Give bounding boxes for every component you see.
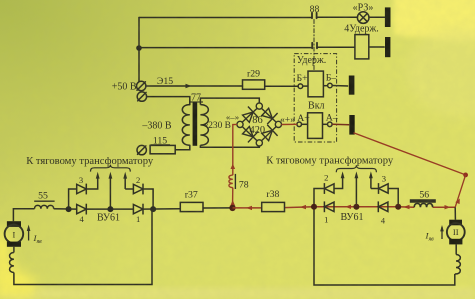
motor I field winding xyxy=(13,247,15,253)
underline label 56 xyxy=(410,199,436,203)
RIGHT DIODE GROUP xyxy=(314,175,455,286)
red diagonal A- to corner xyxy=(354,133,466,175)
coil vkl xyxy=(308,113,323,139)
wire r37 to junction xyxy=(203,207,233,209)
diode bridge top-left xyxy=(241,106,259,124)
red wire minus down from bridge xyxy=(233,124,237,175)
wire top to contact 88 xyxy=(139,17,312,19)
right loop down xyxy=(314,207,455,285)
terminal bar top (lamp) xyxy=(385,7,391,27)
pin A- xyxy=(328,122,333,127)
bright patch top right xyxy=(393,0,475,41)
arrow to transformer outer right xyxy=(369,171,373,178)
arrow up on minus wire xyxy=(231,164,236,170)
LOWER LEFT MOTOR CIRCUIT xyxy=(13,175,232,221)
motor II field winding xyxy=(455,255,461,275)
bottom light band xyxy=(0,288,475,299)
node minus xyxy=(237,121,243,127)
pin B- xyxy=(328,83,333,88)
diode bridge bottom-left xyxy=(241,125,259,143)
arm L-B with diode xyxy=(242,126,257,140)
resistor r38 xyxy=(262,202,285,211)
relay uderzh dashed box xyxy=(294,54,336,142)
arrow up near junction xyxy=(230,200,235,206)
red wire junction to r38 xyxy=(233,207,456,208)
diode 4 xyxy=(77,204,87,215)
node bottom xyxy=(256,140,262,146)
wire contact to lamp xyxy=(317,16,358,18)
upper branch left xyxy=(69,189,77,209)
core xyxy=(193,102,198,145)
relay box 4uderzh xyxy=(355,35,369,59)
node right group mid xyxy=(353,204,359,210)
lamp RZ xyxy=(357,12,369,24)
junction dot main (red) xyxy=(229,205,235,211)
arrow on diagonal xyxy=(455,199,460,205)
diode 2 xyxy=(133,184,143,195)
node plus xyxy=(275,121,281,127)
wire left supply rail xyxy=(138,18,140,82)
arm T-R with diode xyxy=(261,108,276,122)
inductor 56 xyxy=(414,203,432,207)
node top xyxy=(256,103,262,109)
terminal bar A- xyxy=(349,115,354,135)
diode bridge top-right xyxy=(260,106,278,124)
motor I xyxy=(7,221,21,227)
wire lamp to terminal xyxy=(369,16,385,18)
terminal bar B- xyxy=(349,76,355,95)
arrow current Iяв motor I xyxy=(28,228,30,241)
arrow current at motor II junction xyxy=(445,205,451,209)
red corner node xyxy=(463,173,468,178)
node left group outer xyxy=(66,206,72,212)
wire second row xyxy=(139,47,312,49)
arrow current into right group node xyxy=(300,205,306,209)
node right group inner xyxy=(311,204,317,210)
arrows up to traction transformer left xyxy=(96,172,100,179)
arrow to transformer right (left group) xyxy=(123,172,127,179)
resistor 115 xyxy=(150,145,175,153)
red plus wire bridge to A+ xyxy=(229,124,297,208)
node junction on left rail xyxy=(136,45,142,51)
underline label 115 xyxy=(151,144,171,146)
arrow current right group outer xyxy=(404,205,410,209)
current arrow Iav II xyxy=(440,225,444,231)
arrow to transformer mid right xyxy=(355,171,359,178)
arm B-R with diode xyxy=(261,126,276,140)
diode 4 right group xyxy=(378,201,388,212)
terminal 115 xyxy=(137,145,146,154)
bright patch bottom left xyxy=(0,228,36,297)
secondary winding xyxy=(200,105,208,146)
upper branch right xyxy=(124,175,126,189)
arrow current right group inner xyxy=(345,205,351,209)
diode bridge bottom-right xyxy=(260,125,278,143)
underline label 77 xyxy=(189,101,203,103)
transformer T77 xyxy=(182,98,259,147)
node right group outer xyxy=(395,204,401,210)
wire motor I to bus xyxy=(13,209,34,221)
wire A- to bar xyxy=(332,123,349,126)
wire secondary bottom to bridge xyxy=(200,145,259,147)
brace left xyxy=(91,165,131,172)
upper branch xyxy=(314,189,324,207)
terminal bar 4uderzh xyxy=(385,37,390,57)
mechanical dash-dot link xyxy=(313,20,315,71)
coil uderzh xyxy=(308,71,323,97)
arrow current into junction xyxy=(246,206,252,210)
resistor r29 xyxy=(243,80,265,89)
wire E15 xyxy=(146,85,243,87)
wire primary bottom xyxy=(175,145,190,150)
wire B- to bar xyxy=(332,85,348,88)
contact of 4uderzh xyxy=(312,43,317,49)
resistor r37 xyxy=(180,202,203,211)
reactor 78 coil xyxy=(229,175,233,188)
arrow to transformer mid left xyxy=(109,172,113,179)
terminal primary top xyxy=(137,92,146,101)
contact 88 xyxy=(312,13,317,18)
diode 3 right group xyxy=(379,183,389,194)
underline label 55 xyxy=(34,200,54,202)
node left group mid xyxy=(107,206,113,212)
inductor 55 xyxy=(35,205,54,208)
red diagonal corner to motor junction xyxy=(455,175,465,207)
rectifier bridge 86/420 xyxy=(237,103,282,146)
primary winding xyxy=(182,105,190,146)
pin B+ xyxy=(298,84,303,89)
motor II xyxy=(454,207,456,220)
brace right xyxy=(336,165,376,172)
pin A+ xyxy=(297,122,302,127)
terminal +50V xyxy=(137,81,146,90)
arm L-T with diode xyxy=(242,108,257,122)
current arrow Iav I xyxy=(27,225,31,231)
reactor 78 core bar xyxy=(234,174,236,189)
wire to transformer primary xyxy=(147,97,190,105)
wire 55 to group xyxy=(54,208,77,210)
arrows up right group xyxy=(341,171,345,178)
node left group inner xyxy=(150,206,156,212)
diode 1 right group xyxy=(324,201,334,212)
diode 2 right group xyxy=(324,183,334,194)
wire secondary top to bridge xyxy=(200,98,259,105)
arrow current Iяв motor II xyxy=(441,227,443,239)
middle tap wire xyxy=(109,175,111,209)
diode 1 xyxy=(133,204,143,215)
arrow on E15 wire xyxy=(186,84,192,88)
diode 3 xyxy=(77,184,87,195)
bottom loop left xyxy=(14,209,152,284)
